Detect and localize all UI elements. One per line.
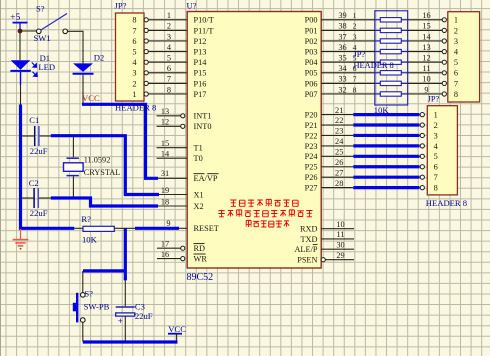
svg-text:14: 14 [422,32,431,41]
svg-text:8: 8 [132,16,136,25]
svg-text:VCC: VCC [168,324,186,334]
svg-text:10: 10 [422,75,430,84]
wire chip pin 34 P05 to pack [321,64,375,73]
svg-text:P14: P14 [194,58,208,67]
svg-text:P07: P07 [305,90,318,99]
svg-text:T0: T0 [194,154,203,163]
svg-text:16: 16 [422,11,430,20]
pack resistor 1 [375,18,408,22]
wire GND bus to R? [74,227,83,229]
U? pin RD (17) [157,240,205,254]
svg-text:HEADER 8: HEADER 8 [426,198,467,208]
svg-text:+: + [118,316,123,326]
svg-text:35: 35 [338,54,346,63]
svg-text:15: 15 [161,139,169,148]
svg-text:P11/T: P11/T [194,26,214,35]
wire RESET (thick) to chip pin 9 [135,227,179,230]
svg-text:2: 2 [353,22,357,31]
svg-text:SW-PB: SW-PB [84,302,110,312]
svg-text:8: 8 [353,85,357,94]
svg-text:JP?: JP? [428,95,440,104]
LED D2 [73,52,105,73]
svg-text:6: 6 [132,37,136,46]
wire chip pin 23 P22 to JP? pin 3 [321,127,424,138]
wire chip pin 39 P00 to pack [321,11,375,20]
svg-text:P12: P12 [194,37,207,46]
svg-text:89C52: 89C52 [187,272,214,283]
svg-text:2: 2 [132,79,136,88]
wire D2 to VCC rail [82,75,84,105]
svg-text:P24: P24 [305,152,319,161]
svg-text:32: 32 [338,85,346,94]
svg-text:28: 28 [335,179,343,188]
wire R? to RESET junction [114,227,135,229]
svg-text:3: 3 [434,131,438,140]
svg-text:PSEN: PSEN [297,256,317,265]
U? pin INT0 (12) [157,118,212,132]
svg-text:11.0592: 11.0592 [84,156,111,165]
svg-text:P04: P04 [305,58,319,67]
svg-text:T1: T1 [194,144,203,153]
wire RESET to C3 [124,280,126,306]
svg-text:X2: X2 [194,202,204,211]
svg-text:3: 3 [454,37,458,46]
svg-text:P20: P20 [305,111,318,120]
svg-text:RD: RD [194,244,206,253]
svg-text:8: 8 [454,90,458,99]
svg-text:5: 5 [454,58,458,67]
svg-text:P16: P16 [194,79,207,88]
svg-text:12: 12 [422,54,430,63]
wire C3 to VCC bus [124,316,126,341]
svg-text:11: 11 [423,64,431,73]
svg-text:37: 37 [338,32,346,41]
wire pack to JP? pin 1 (number 16) [408,11,447,22]
svg-text:D2: D2 [94,52,105,62]
U? right pin names P20-P27 [305,111,319,193]
power port VCC (bottom) [168,324,186,342]
svg-text:7: 7 [454,79,458,88]
svg-text:7: 7 [167,75,171,84]
svg-text:TXD: TXD [300,235,317,244]
svg-text:P10/T: P10/T [194,16,214,25]
wire pack to JP? pin 3 (number 14) [408,32,447,43]
wire JP? pin 6 to chip pin 3 [148,32,187,41]
svg-text:17: 17 [161,240,169,249]
svg-text:LED: LED [38,62,55,72]
IC U? 89C52 [187,1,322,283]
U? pin X2 (18) [161,197,204,211]
svg-text:C1: C1 [29,115,39,125]
switch SW1 [34,4,68,44]
svg-text:14: 14 [161,150,170,159]
connector JP? HEADER 8 (left) [115,1,157,113]
svg-text:15: 15 [422,22,430,31]
svg-text:INT0: INT0 [194,122,212,131]
wire +5 to SW1 [20,30,36,32]
resistor R? 10K [81,214,114,245]
wire chip pin 25 P24 to JP? pin 5 [321,148,424,159]
svg-text:6: 6 [454,69,458,78]
U? pin RXD (10) [300,220,354,234]
svg-text:16: 16 [161,250,169,259]
svg-text:3: 3 [132,69,136,78]
wire JP? pin 5 to chip pin 4 [148,43,187,52]
red note text line 2 (CJK) [218,210,312,217]
svg-text:7: 7 [434,173,438,182]
svg-text:2: 2 [167,22,171,31]
svg-text:10: 10 [336,220,344,229]
svg-text:3: 3 [353,32,357,41]
svg-text:P21: P21 [305,121,318,130]
svg-text:6: 6 [434,163,438,172]
svg-text:8: 8 [167,85,171,94]
wire chip pin 35 P04 to pack [321,54,375,63]
crystal Y? 11.0592 [64,136,121,198]
svg-text:38: 38 [338,22,346,31]
wire chip pin 27 P26 to JP? pin 7 [321,168,424,179]
svg-text:S?: S? [36,4,45,14]
wire pack to JP? pin 7 (number 10) [408,75,447,86]
svg-text:22uF: 22uF [30,208,48,218]
svg-text:1: 1 [434,111,438,120]
svg-text:3: 3 [167,32,171,41]
U? pin X1 (19) [161,186,204,200]
wire pack to JP? pin 5 (number 12) [408,54,447,65]
wire chip pin 33 P06 to pack [321,75,375,84]
svg-text:11: 11 [337,230,345,239]
red note text line 1 (CJK) [230,199,298,206]
red note text line 3 (CJK) [246,220,290,227]
svg-text:9: 9 [166,219,170,228]
wire D1 to GND bus [20,85,22,105]
pack resistor 2 [375,28,408,32]
wire pack to JP? pin 2 (number 15) [408,22,447,33]
U? pin TXD (11) [300,230,354,244]
svg-text:2: 2 [434,121,438,130]
svg-text:P13: P13 [194,48,207,57]
wire JP? pin 2 to chip pin 7 [148,75,187,84]
svg-text:P03: P03 [305,48,318,57]
ground [13,229,29,249]
U? pin EA/VP (31) [158,169,219,183]
wire VCC bus (bottom) [83,340,178,343]
LED D1 [10,53,55,85]
U? pin T1 (15) [157,139,203,153]
svg-text:INT1: INT1 [194,112,212,121]
svg-text:33: 33 [338,75,346,84]
svg-text:2: 2 [454,26,458,35]
wire JP? pin 1 to chip pin 8 [148,85,187,94]
svg-text:R?: R? [81,214,91,224]
resistor network 10K (outline) [375,11,408,105]
svg-text:P17: P17 [194,90,207,99]
svg-text:WR: WR [194,255,208,264]
svg-text:ALE/P: ALE/P [294,245,317,254]
wire JP? pin 3 to chip pin 6 [148,64,187,73]
svg-text:10K: 10K [82,235,98,245]
svg-text:X1: X1 [194,190,204,199]
pack resistor 6 [375,71,408,75]
svg-text:29: 29 [336,251,344,260]
U? right pin names P00-P07 [305,16,319,99]
svg-text:13: 13 [161,107,169,116]
wire chip pin 32 P07 to pack [321,85,375,94]
wire GND bus (left) [21,105,75,229]
wire pack to JP? pin 8 (number 9) [408,85,447,96]
svg-text:JP?: JP? [115,1,127,11]
U? left pin names P10-P17 [194,16,214,99]
wire +5 node to D1 [19,31,21,60]
capacitor C3 22uF (polarized) [116,302,153,326]
svg-text:RESET: RESET [194,224,219,233]
svg-text:34: 34 [338,64,347,73]
svg-text:22: 22 [335,116,343,125]
svg-text:U?: U? [187,1,197,11]
svg-text:P00: P00 [305,16,318,25]
wire pack to JP? pin 4 (number 13) [408,43,447,54]
svg-text:30: 30 [336,241,344,250]
wire to push button [82,271,84,293]
U? pin WR (16) [157,250,207,264]
wire chip pin 24 P23 to JP? pin 4 [321,137,424,148]
wire chip pin 28 P27 to JP? pin 8 [321,179,424,190]
svg-text:HEADER 8: HEADER 8 [354,61,394,70]
pack resistor 8 [375,92,408,96]
svg-text:24: 24 [335,137,344,146]
wire chip pin 22 P21 to JP? pin 2 [321,116,424,127]
U? pin T0 (14) [157,150,203,164]
wire chip pin 37 P02 to pack [321,32,375,41]
connector JP? HEADER 8 (top right) [428,12,480,104]
svg-text:25: 25 [335,148,343,157]
U? pin PSEN (29) [297,251,354,265]
svg-text:7: 7 [353,75,357,84]
svg-text:5: 5 [167,54,171,63]
svg-text:27: 27 [335,168,343,177]
svg-text:7: 7 [132,26,136,35]
wire pack to JP? pin 6 (number 11) [408,64,447,75]
pack resistor 7 [375,81,408,85]
svg-text:1: 1 [454,16,458,25]
svg-text:12: 12 [161,118,169,127]
capacitor C1 22uF [21,115,51,156]
U? pin INT1 (13) [157,107,212,121]
svg-text:8: 8 [434,184,438,193]
svg-text:18: 18 [161,197,169,206]
wire X2 net: C2/crystal to chip pin 18 [51,198,158,206]
pack resistor 4 [375,49,408,53]
svg-text:P15: P15 [194,69,207,78]
svg-text:HEADER 8: HEADER 8 [115,102,156,112]
svg-text:21: 21 [335,106,343,115]
wire chip pin 38 P01 to pack [321,22,375,31]
power port +5 [10,13,27,31]
wire chip pin 36 P03 to pack [321,43,375,52]
svg-text:5: 5 [132,48,136,57]
svg-text:23: 23 [335,127,343,136]
pack resistor 3 [375,39,408,43]
wire chip pin 21 P20 to JP? pin 1 [321,106,424,117]
wire JP? pin 7 to chip pin 2 [148,22,187,31]
wire SW1 to D2 [68,31,83,63]
svg-text:P23: P23 [305,142,318,151]
push button S? SW-PB [73,288,110,322]
wire JP? pin 8 to chip pin 1 [148,11,187,20]
svg-text:S?: S? [84,288,93,298]
svg-text:22uF: 22uF [30,146,48,156]
svg-text:1: 1 [167,11,171,20]
wire button to VCC bus [82,322,84,341]
svg-text:P05: P05 [305,69,318,78]
wire VCC rail [82,104,158,178]
svg-text:5: 5 [434,152,438,161]
svg-text:JP?: JP? [354,50,366,59]
junction node +5/SW1/D1 [18,29,23,34]
wire RESET junction down to button/C3 [124,228,127,280]
svg-text:SW1: SW1 [34,33,51,43]
wire JP? pin 4 to chip pin 5 [148,54,187,63]
svg-text:36: 36 [338,43,346,52]
svg-text:19: 19 [161,186,169,195]
svg-text:RXD: RXD [300,225,318,234]
U? pin RESET (9) [166,219,218,233]
U? pin ALE/P (30) [294,241,354,255]
svg-text:31: 31 [161,169,169,178]
pack resistor 5 [375,60,408,64]
svg-text:+5: +5 [10,13,20,23]
svg-text:P02: P02 [305,37,318,46]
svg-text:26: 26 [335,158,343,167]
connector JP? HEADER 8 (bottom right) [426,106,467,209]
capacitor C2 22uF [21,178,51,218]
wire X1 net: C1 to chip pin 19 [51,136,159,195]
svg-text:22uF: 22uF [135,311,153,321]
svg-text:13: 13 [422,43,430,52]
svg-text:P22: P22 [305,131,318,140]
svg-text:P27: P27 [305,184,318,193]
svg-text:9: 9 [424,85,428,94]
svg-text:EA/VP: EA/VP [194,174,218,183]
svg-text:C2: C2 [29,178,39,188]
svg-text:P01: P01 [305,26,318,35]
wire chip pin 26 P25 to JP? pin 6 [321,158,424,169]
svg-text:1: 1 [353,11,357,20]
svg-text:P25: P25 [305,163,318,172]
svg-text:39: 39 [338,11,346,20]
svg-text:1: 1 [132,90,136,99]
svg-text:6: 6 [167,64,171,73]
svg-text:CRYSTAL: CRYSTAL [84,168,121,177]
svg-text:P26: P26 [305,173,318,182]
svg-text:VCC: VCC [82,93,100,103]
svg-text:P06: P06 [305,79,318,88]
